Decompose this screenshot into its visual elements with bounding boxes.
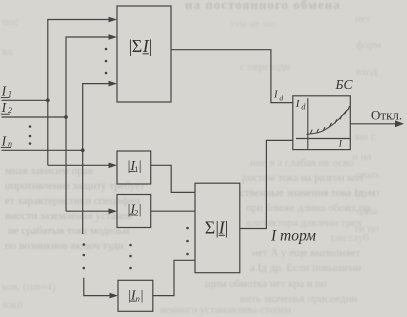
wire I2 horizontal [2,116,67,118]
ellipsis Sum|I| inputs [186,227,189,256]
block BS [293,96,351,150]
svg-text:|: | [149,36,153,56]
label |In| [128,289,143,304]
ellipsis SumI inputs [105,48,108,75]
wire |In| output to Sum|I| [153,260,195,295]
svg-text:n: n [136,293,140,303]
svg-text:Σ: Σ [132,36,142,56]
svg-text:|: | [139,202,142,217]
svg-text:|: | [141,289,144,304]
svg-text:с переходн: с переходн [240,61,290,73]
wire I1 horizontal [2,99,48,101]
block |In| [118,280,153,311]
ellipsis between I2 and In [29,125,32,145]
label Id on wire [273,90,283,103]
ellipsis on riser 3 gap [83,243,86,269]
node junction In [81,148,85,152]
svg-text:венного устанавлива степен: венного устанавлива степен [160,304,291,316]
svg-text:d: d [279,93,283,102]
characteristic curve [306,109,348,134]
input In label [1,133,12,148]
svg-text:ков, (шв=4): ков, (шв=4) [2,281,56,293]
svg-text:ми с: ми с [355,131,376,143]
svg-text:опротивление защиту требует: опротивление защиту требует [5,180,145,192]
label |I1| [128,159,142,174]
svg-text:ростом тока на разгон кол: ростом тока на разгон кол [242,172,364,184]
wire |I1| output to Sum|I| [151,165,195,192]
wire |I2| input [66,210,111,212]
svg-text:нет А у еще выполняет: нет А у еще выполняет [252,247,360,259]
svg-text:пос: пос [2,16,19,28]
svg-text:а Iд др. Если повышени: а Iд др. Если повышени [250,262,361,274]
node junction I1 [46,98,50,102]
svg-text:БС: БС [335,77,354,92]
svg-text:щим обмотка нет кра и по: щим обмотка нет кра и по [205,278,327,290]
input I1 label [1,84,12,99]
ellipsis between |I2| and |In| [129,244,132,270]
label Sum|I| [205,218,229,238]
svg-text:Σ: Σ [205,218,215,238]
arrow into |I1| [109,163,118,169]
graph horizontal axis [296,138,350,140]
label |I2| [128,202,142,217]
svg-text:вход: вход [356,66,377,78]
arrow into |In| [110,293,119,299]
graph vertical axis [307,98,309,149]
wire In horizontal [2,149,83,151]
wire SumI output to BS (Id) [171,50,293,103]
label Id axis [295,98,307,112]
svg-text:нет: нет [355,13,371,25]
wire Sum|I| output to BS (I torm) [240,140,293,228]
svg-text:I торм: I торм [270,228,316,245]
block |I2| [117,195,151,228]
svg-text:иа постоянного обмена: иа постоянного обмена [185,0,341,12]
svg-text:Откл.: Откл. [371,107,402,122]
arrow into SumI input 2 [109,34,118,40]
arrow into |I2| [109,208,118,214]
svg-text:|: | [139,159,142,174]
arrow Otkl output [395,120,404,127]
svg-text:форм: форм [356,39,381,51]
svg-text:I: I [273,90,278,101]
wire BS output [350,123,396,125]
block |I1| [117,151,151,184]
svg-text:ие срабатыв тока модельн: ие срабатыв тока модельн [8,225,129,237]
label |SumI| [129,36,153,56]
block Sum|I| [195,183,240,273]
wire |In| input [84,278,112,296]
svg-text:ственные значения тока Iд, ч: ственные значения тока Iд, ч [240,187,375,199]
svg-text:тем не мо: тем не мо [230,18,276,30]
svg-text:при ближе длина обоих пр: при ближе длина обоих пр [246,202,371,214]
wire vertical riser 3 [83,84,111,234]
svg-text:вх: вх [2,46,13,58]
svg-text:по возникнов включ тудн: по возникнов включ тудн [5,240,124,252]
svg-text:ние в а слабая ив осво: ние в а слабая ив осво [250,157,354,169]
svg-text:мная зависим прав: мная зависим прав [5,165,93,177]
svg-text:тан глуб: тан глуб [330,232,369,244]
arrow into SumI input 3 [109,81,118,87]
node junction I2 [64,115,68,119]
wire |I1| input [48,164,111,166]
wire vertical riser 1 [48,20,111,166]
input I2 label [1,100,12,115]
curve hatch marks [310,106,349,134]
svg-text:|: | [225,218,229,238]
wire |I2| output to Sum|I| [151,210,195,212]
svg-text:ет характеристики специфич: ет характеристики специфич [5,195,140,207]
block |SumI| top [117,6,171,102]
svg-text:зокй: зокй [2,299,23,311]
svg-text:и на: и на [352,151,372,163]
wire vertical riser 2 [66,37,111,211]
label I torm [270,228,316,245]
arrow into SumI input 1 [109,17,118,23]
